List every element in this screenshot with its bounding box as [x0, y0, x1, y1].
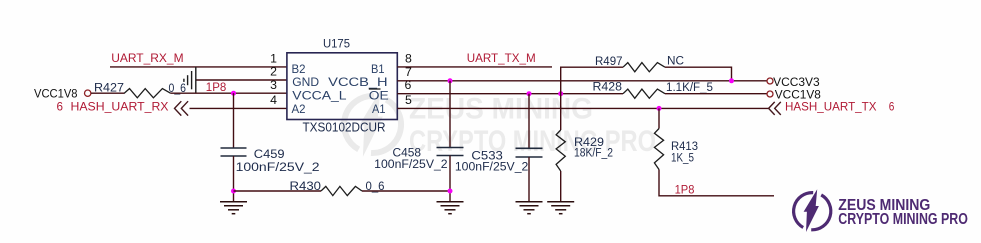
svg-text:A1: A1: [372, 102, 386, 116]
node junction R497/VCC3V3: [729, 78, 734, 83]
ground (C533): [516, 202, 543, 214]
wire C533 vertical: [528, 94, 530, 148]
svg-text:6: 6: [889, 100, 895, 114]
svg-text:R413: R413: [671, 141, 698, 153]
svg-text:VCC3V3: VCC3V3: [773, 76, 820, 89]
wire R429 bottom to ground: [560, 171, 562, 202]
ground (R429): [547, 202, 574, 214]
resistor R428: [623, 89, 665, 98]
svg-text:TXS0102DCUR: TXS0102DCUR: [303, 120, 386, 134]
resistor R430: [321, 186, 362, 195]
svg-text:CRYPTO MINING PRO: CRYPTO MINING PRO: [409, 125, 656, 158]
svg-text:R427: R427: [94, 83, 124, 95]
svg-text:1: 1: [270, 52, 277, 66]
op-amp U175 chip box: [287, 53, 397, 120]
port HASH_UART_RX chevron: [175, 101, 189, 115]
svg-text:R497: R497: [595, 56, 623, 68]
svg-text:5: 5: [405, 93, 412, 107]
resistor R429: [556, 130, 565, 171]
svg-text:UART_TX_M: UART_TX_M: [467, 51, 536, 65]
svg-text:U175: U175: [323, 39, 350, 51]
node junction pin7/C458: [448, 78, 453, 83]
svg-text:VCCA_L: VCCA_L: [292, 88, 347, 102]
svg-text:HASH_UART_RX: HASH_UART_RX: [71, 100, 169, 114]
svg-text:VCC1V8: VCC1V8: [34, 87, 78, 100]
wire R427 to pin3: [171, 92, 287, 94]
svg-text:R428: R428: [593, 81, 623, 93]
watermark logo: [344, 90, 656, 158]
wire pin5 to chevron: [397, 107, 768, 109]
svg-text:100nF/25V_2: 100nF/25V_2: [455, 161, 528, 173]
svg-text:18K/F_2: 18K/F_2: [574, 147, 613, 159]
svg-text:HASH_UART_TX: HASH_UART_TX: [785, 100, 877, 114]
svg-text:1K_5: 1K_5: [671, 152, 694, 164]
svg-text:C458: C458: [393, 148, 422, 160]
resistor R413: [654, 129, 663, 170]
node junction pin5/R413: [657, 106, 662, 111]
svg-text:C459: C459: [254, 149, 285, 161]
svg-text:GND: GND: [292, 75, 319, 89]
svg-text:100nF/25V_2: 100nF/25V_2: [374, 159, 447, 171]
wire pin7 to VCC3V3: [397, 80, 767, 82]
svg-text:1.1K/F_5: 1.1K/F_5: [666, 82, 713, 94]
wire R497 right lead to VCC3V3 line: [665, 67, 732, 81]
power port VCC3V3: [767, 78, 773, 84]
svg-text:CRYPTO MINING PRO: CRYPTO MINING PRO: [838, 211, 968, 228]
wire R413 bottom to 1P8 stub: [659, 170, 774, 196]
wire UART_RX_M to pin1: [110, 66, 287, 68]
ground (rotated, pin2): [184, 67, 196, 94]
node junction pin3/C459: [231, 91, 236, 96]
node junction pin6/C533: [527, 91, 532, 96]
ground (C458): [437, 202, 464, 214]
svg-text:NC: NC: [667, 55, 684, 67]
ground (C459): [220, 202, 247, 214]
svg-text:3: 3: [270, 78, 277, 92]
svg-text:R430: R430: [290, 181, 322, 193]
wire R497 left lead: [560, 66, 623, 68]
capacitor C458: [437, 148, 464, 156]
svg-text:B2: B2: [292, 62, 306, 76]
wire C459 bottom to ground: [233, 156, 235, 202]
wire R430 left lead: [234, 190, 322, 192]
wire R430 right lead: [362, 190, 450, 192]
capacitor C459: [221, 148, 247, 156]
wire pin8 UART_TX_M: [397, 66, 552, 68]
svg-text:4: 4: [270, 93, 277, 107]
svg-text:UART_RX_M: UART_RX_M: [111, 51, 183, 65]
node junction C459/R430: [231, 189, 236, 194]
svg-text:1P8: 1P8: [206, 80, 227, 94]
wire pin2 GND stub: [196, 79, 287, 81]
company logo: [794, 189, 968, 232]
port HASH_UART_TX chevron: [769, 102, 781, 115]
wire VCC1V8 to R427: [91, 92, 125, 94]
wire C458 vertical: [449, 81, 451, 148]
node junction C458/R430: [448, 189, 453, 194]
resistor R427: [124, 89, 170, 98]
svg-text:B1: B1: [371, 62, 385, 76]
wire chevron to pin4: [190, 107, 287, 109]
svg-text:1P8: 1P8: [675, 183, 695, 197]
svg-text:2: 2: [270, 65, 277, 79]
power port VCC1V8 (right): [767, 91, 773, 97]
wire C458 bottom to ground: [449, 156, 451, 202]
wire R428 to VCC1V8: [665, 93, 767, 95]
resistor R497: [623, 63, 665, 72]
wire C533 bottom to ground: [528, 157, 530, 202]
wire junction down to C459: [233, 93, 235, 148]
node junction pin6/R429 vertical: [558, 91, 563, 96]
svg-text:100nF/25V_2: 100nF/25V_2: [236, 162, 320, 174]
svg-text:6: 6: [57, 100, 64, 114]
wire pin6 to R428: [397, 93, 623, 95]
svg-text:OE: OE: [369, 88, 389, 102]
svg-text:A2: A2: [292, 102, 306, 116]
svg-text:VCCB_H: VCCB_H: [328, 75, 387, 89]
wire R413 top lead: [658, 108, 660, 128]
wire OE net vertical (R497 left / R429 top): [560, 67, 562, 130]
capacitor C533: [516, 148, 543, 157]
svg-text:8: 8: [405, 51, 412, 65]
